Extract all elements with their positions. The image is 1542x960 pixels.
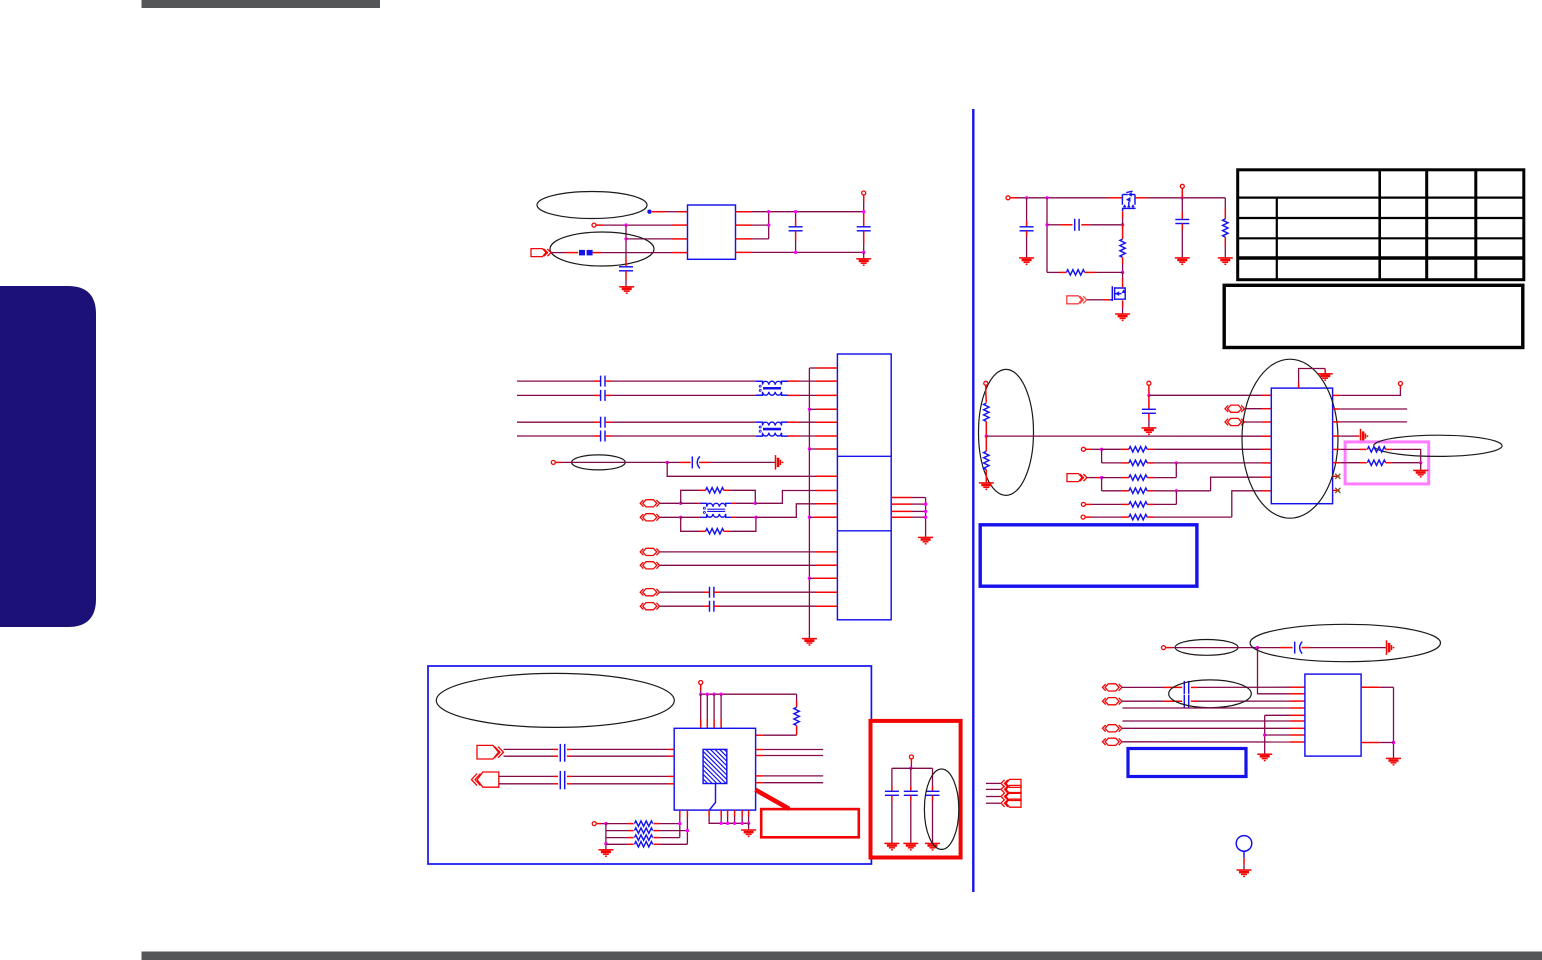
wire flag to Q2 gate: [1087, 299, 1103, 301]
wire vertical node A: [625, 225, 627, 258]
wire gnd branch top: [1265, 714, 1290, 716]
wire strap row2: [1102, 462, 1121, 464]
wire gnd pin drop x=721.2: [720, 810, 722, 816]
wire C11 to U4: [567, 783, 572, 785]
wire to ground G12: [1420, 463, 1422, 470]
wire R6 to ground: [1224, 237, 1226, 246]
wire row2 right: [1147, 462, 1154, 464]
resistor R6: [1223, 219, 1228, 237]
junction S3: [1100, 476, 1103, 479]
terminal T5: [1180, 184, 1184, 188]
wire top branch right: [724, 489, 730, 491]
highlight ellipse E2: [572, 455, 626, 470]
wire pair1a mid: [605, 380, 612, 382]
terminal T14: [909, 755, 913, 759]
resistor R5: [1066, 270, 1084, 275]
wire strap row R20 left: [606, 837, 627, 839]
common-mode choke L1: [756, 381, 788, 395]
wire Y1 to C15: [1258, 647, 1281, 649]
ground C12g: [884, 843, 899, 849]
wire gnd pin drop x=742.2: [741, 810, 743, 816]
wire R19 right: [654, 830, 661, 832]
capacitor C2: [789, 227, 803, 231]
wire T9 to row5: [1086, 503, 1092, 505]
ground G6: [1115, 314, 1130, 320]
wire pair2a mid: [605, 421, 612, 423]
wire H2 to junction: [660, 516, 681, 518]
wire T2 down: [863, 195, 865, 202]
wire row4 to U5: [1123, 720, 1291, 722]
wire T10 to row6: [1085, 516, 1092, 518]
junction V2: [706, 693, 709, 696]
wire pair2b to U2: [788, 435, 799, 437]
wire to left flag y=803.2: [986, 802, 1001, 804]
wire hex to U2: [660, 564, 816, 566]
capacitor C1 leads: [625, 258, 627, 267]
wire R5 to node: [1085, 271, 1095, 273]
junction P2: [1045, 196, 1048, 199]
hex connector row y=592.2: [640, 589, 659, 596]
junction W1: [604, 822, 607, 825]
wire U1 out3: [736, 238, 753, 240]
capacitor C3 bottom lead: [863, 231, 865, 244]
capacitor C7: [1142, 409, 1156, 413]
ground G5: [1019, 258, 1034, 264]
wire TX pair1b left: [517, 394, 594, 396]
highlight ellipse E7: [924, 769, 958, 849]
wire T5 down: [1181, 189, 1183, 198]
small highlight ellipse E5: [1374, 435, 1502, 456]
wire TX pair2a left: [517, 421, 594, 423]
wire to left flag y=783.4: [986, 782, 1001, 784]
resistor R12: [1129, 488, 1147, 493]
IC U2 divider 1: [837, 455, 891, 457]
wire gnd branch vertical: [1264, 715, 1266, 754]
ground termination GT1: [776, 455, 784, 470]
wire U3 out5: [1333, 448, 1341, 450]
wire hex to cap: [660, 591, 703, 593]
wire T15 net: [1166, 647, 1172, 649]
wire U3 out4 termination: [1333, 435, 1341, 437]
wire row4-row5 tie: [1175, 491, 1177, 505]
wire TX pair2b left: [517, 435, 594, 437]
wire T14 down: [910, 759, 912, 763]
wire pair1b to U2: [788, 394, 799, 396]
wire bus drop x=714.1: [713, 694, 715, 719]
wire C13 bottom lead: [910, 795, 912, 801]
junction C3a: [862, 210, 865, 213]
wire U4 bottom gnd pins: [708, 810, 710, 816]
junction W4: [686, 829, 689, 832]
wire C12 top lead: [891, 768, 893, 786]
bus pin row 3: [809, 448, 816, 450]
terminal T8: [1081, 447, 1085, 451]
ground G7: [1175, 258, 1190, 264]
resistor R10: [1129, 460, 1147, 465]
wire main rail: [1010, 197, 1017, 199]
wire to C4: [667, 461, 680, 463]
gate flag F3: [1067, 474, 1087, 482]
bus junction r5: [808, 577, 811, 580]
wire into U2 row6: [800, 475, 816, 477]
wire S3 down: [1101, 478, 1103, 491]
wire U4 pinA drop: [679, 810, 681, 817]
callout leader: [755, 790, 789, 809]
wire R18 right: [654, 823, 661, 825]
wire H3 to U3: [1245, 408, 1262, 410]
wire C6 to ground: [1181, 224, 1183, 231]
capacitor C9: [560, 751, 564, 762]
junction gnd pin: [747, 822, 750, 825]
wire pair1b mid: [605, 394, 612, 396]
resistor R11: [1129, 475, 1147, 480]
wire gnd pin drop x=734.6: [734, 810, 736, 816]
wire Y1 drop to U5: [1258, 648, 1291, 694]
wire R17 to U4 pin: [763, 734, 797, 736]
wire bottom branch: [681, 517, 700, 531]
wire cap bus: [892, 767, 933, 769]
wire R21 right: [654, 843, 661, 845]
resistor R15: [1367, 447, 1385, 452]
junction E3c: [754, 502, 757, 505]
terminal T4: [1006, 196, 1010, 200]
ground G2: [856, 259, 871, 265]
junction B2: [767, 223, 770, 226]
wire branch to R5: [1047, 271, 1060, 273]
capacitor Cs1: [601, 376, 605, 387]
wire circle to ground: [1243, 851, 1245, 858]
note box under table: [1224, 285, 1523, 347]
terminal T1: [592, 223, 596, 227]
wire gnd pin drop x=727.6: [727, 810, 729, 816]
wire bus to R17: [796, 694, 798, 700]
junction S2: [1175, 461, 1178, 464]
wire U4 pinB drop: [686, 810, 688, 817]
wire U1 pin1: [652, 211, 665, 213]
highlight ellipse E6: [436, 673, 674, 727]
wire H6 to C17: [1122, 700, 1163, 702]
ground G15: [1257, 754, 1272, 760]
wire row2-row3 tie: [1175, 463, 1177, 478]
wire U3 out6: [1333, 462, 1341, 464]
wire R4 down: [1122, 257, 1124, 264]
capacitor C7 lead: [1148, 395, 1150, 409]
highlight ellipse E1: [537, 192, 647, 219]
wire U5 right top: [1361, 686, 1379, 688]
net flag left y=803.2: [1001, 799, 1021, 807]
wire C15 to termination: [1302, 647, 1311, 649]
wire bus drop x=707.3: [706, 694, 708, 719]
wire gnd branch mid: [1265, 734, 1290, 736]
gate flag F2: [1067, 296, 1087, 304]
common-mode choke L3: [700, 503, 732, 517]
wire flag to bead: [551, 252, 566, 254]
junction C2b: [794, 251, 797, 254]
callout box red: [761, 809, 859, 837]
U3 nc pin2: [1333, 489, 1340, 491]
ground G3: [802, 639, 817, 645]
junction P6: [1121, 271, 1124, 274]
resistor R8: [984, 451, 989, 469]
antenna circle: [1236, 836, 1252, 852]
wire row3 right: [1147, 477, 1154, 479]
wire right vertical: [925, 498, 927, 537]
junction P1: [1025, 196, 1028, 199]
node dot (blue) pin1 net: [647, 210, 651, 214]
terminal T2: [862, 191, 866, 195]
wire Q1 drain out: [1135, 197, 1148, 199]
bus pin row 1: [809, 367, 816, 369]
wire strap row R21 left: [606, 843, 627, 845]
wire top bus: [701, 693, 797, 695]
wire strap row R19 left: [606, 830, 627, 832]
wire choke feed top: [681, 502, 698, 504]
net flag F1: [531, 249, 551, 257]
hex connector H8: [1103, 738, 1122, 745]
wire C7 to ground: [1148, 413, 1150, 420]
junction gnd pin: [733, 822, 736, 825]
junction V1: [699, 693, 702, 696]
ground G10: [1141, 428, 1156, 434]
wire C17 to U5: [1191, 700, 1197, 702]
terminal T11: [1398, 382, 1402, 386]
wire row6 right: [1147, 516, 1154, 518]
junction Y3: [1392, 741, 1395, 744]
wire U3 out3: [1333, 421, 1341, 423]
resistor R13: [1129, 502, 1147, 507]
ground C14g: [925, 843, 940, 849]
bus junction r4: [808, 516, 811, 519]
wire C5 to Q1 gate node: [1081, 224, 1090, 226]
capacitor C17: [1184, 695, 1188, 708]
capacitor Cs4: [601, 431, 605, 442]
wire U4 right pair2a: [756, 775, 763, 777]
terminal T10: [1081, 515, 1085, 519]
wire T7 down: [1148, 385, 1150, 395]
blue note box mid: [980, 525, 1197, 586]
wire Q1 gate down: [1122, 211, 1124, 218]
wire strap row4: [1102, 490, 1121, 492]
hex connector H2: [640, 514, 659, 521]
junction D1: [666, 461, 669, 464]
wire C13 top lead: [910, 768, 912, 786]
revision table: [1238, 170, 1524, 280]
ground G13: [598, 850, 613, 856]
wire to left flag y=796.5: [986, 796, 1001, 798]
U3 nc pin1: [1333, 475, 1340, 477]
wire U3 out2: [1333, 408, 1341, 410]
bus wire vertical: [808, 368, 810, 635]
hex connector H5: [1103, 684, 1122, 691]
wire left branch: [1046, 198, 1048, 273]
wire Q2 source to ground: [1122, 300, 1124, 307]
junction Q2j: [1147, 394, 1150, 397]
wire U1 pin3: [626, 238, 672, 240]
wire to ground G14: [748, 823, 750, 829]
wire choke out bottom: [731, 516, 736, 518]
junction P3: [1181, 196, 1184, 199]
capacitor series y=606.2: [710, 601, 714, 612]
highlight ellipse E8: [1175, 640, 1238, 656]
wire rail into Q1: [1108, 197, 1122, 199]
junction P4: [1045, 223, 1048, 226]
junction P5: [1121, 223, 1124, 226]
wire to ground G2: [863, 252, 865, 258]
wire D1 branch down: [667, 462, 800, 476]
wire C1 to ground: [625, 271, 627, 280]
wire C16 to U5: [1191, 686, 1197, 688]
bus pin row 4: [809, 516, 813, 518]
capacitor C6: [1175, 220, 1189, 224]
resistor R2c: [706, 529, 724, 534]
hex connector row y=551.9: [640, 548, 659, 555]
ground G11: [1318, 374, 1333, 380]
wire left strap vertical: [605, 824, 607, 850]
IC U4: [674, 728, 755, 810]
junction W2: [604, 842, 607, 845]
wire net45 up to U3: [1211, 477, 1262, 491]
wire bus drop x=721.1: [720, 694, 722, 719]
resistor R9: [1129, 447, 1147, 452]
IC U2 divider 2: [837, 530, 891, 532]
wire pair2b mid: [605, 435, 612, 437]
capacitor C6 lead: [1181, 198, 1183, 212]
resistor R7: [984, 403, 989, 421]
junction S4: [1175, 489, 1178, 492]
wire U1 out1: [736, 211, 753, 213]
junction RP2: [924, 510, 927, 513]
junction gnd pin: [741, 822, 744, 825]
junction E2c: [679, 516, 682, 519]
wire to left flag y=789.4: [986, 788, 1001, 790]
capacitor C1: [619, 267, 633, 271]
hex connector H7: [1103, 725, 1122, 732]
wire to R4: [1122, 225, 1124, 239]
ground G4: [918, 537, 933, 543]
bulk cap box red: [871, 721, 961, 858]
wire R16 right: [1386, 462, 1392, 464]
hex connector row y=606.2: [640, 603, 659, 610]
terminal T9: [1081, 502, 1085, 506]
capacitor Cs3: [601, 417, 605, 428]
wire C8 to U4: [567, 748, 572, 750]
IC U1: [688, 205, 736, 259]
wire F4a to cap: [504, 748, 554, 750]
wire C12 bottom lead: [891, 795, 893, 801]
ground C13g: [903, 843, 918, 849]
junction RP1: [924, 502, 927, 505]
capacitor C13: [904, 791, 918, 795]
wire hex to cap: [660, 605, 703, 607]
wire vcc to U3: [1149, 394, 1262, 396]
container box blue: [428, 666, 871, 864]
capacitor C16: [1184, 681, 1188, 694]
resistor R17: [794, 707, 799, 725]
wire choke feed bottom: [681, 516, 698, 518]
no-connect X1: [1335, 474, 1340, 479]
terminal T12: [699, 681, 703, 685]
capacitor C12: [885, 791, 899, 795]
wire F5b to cap: [499, 783, 553, 785]
hex connector H4: [1225, 418, 1244, 425]
junction RP3: [924, 516, 927, 519]
wire U1 out4: [736, 251, 753, 253]
wire T6 to R7: [985, 386, 987, 393]
bus pin row 2: [809, 408, 816, 410]
wire TX pair1a left: [517, 380, 594, 382]
terminal T15: [1162, 646, 1166, 650]
junction W3: [678, 822, 681, 825]
wire R8 to ground: [985, 470, 987, 483]
hex connector H1: [640, 500, 659, 507]
page footer bar: [142, 952, 1542, 960]
wire bus drop x=700.7: [700, 694, 702, 719]
wire F3 to junction: [1087, 477, 1095, 479]
wire F5a to cap: [499, 775, 553, 777]
hex connector H6: [1103, 698, 1122, 705]
junction Q1j: [985, 434, 988, 437]
wire H7 to U5: [1122, 727, 1290, 729]
ground G1: [619, 287, 634, 293]
wire out joining vertical: [768, 212, 770, 239]
U2 right pins wires: [891, 497, 912, 499]
capacitor C10: [560, 771, 564, 782]
wire T3 net: [555, 461, 561, 463]
wire row1 to U3: [1147, 448, 1154, 450]
wire H1 to junction: [660, 502, 681, 504]
highlight ellipse E10: [1169, 680, 1252, 708]
terminal T6: [984, 381, 988, 385]
wire H8 to U5: [1122, 741, 1290, 743]
center divider line: [972, 109, 974, 892]
wire U4 right pair1b: [756, 755, 763, 757]
wire strap row R18 left: [606, 823, 627, 825]
capacitor C8: [560, 744, 564, 755]
capacitor Cin: [1020, 227, 1034, 231]
hex connector H3: [1225, 405, 1244, 412]
wire bottom branch right: [724, 530, 730, 532]
junction Y2: [1263, 733, 1266, 736]
page header bar: [142, 0, 381, 8]
bus ground wire: [808, 635, 810, 638]
wire U3 top pin to ground: [1298, 383, 1300, 389]
wire H4 to U3: [1245, 421, 1262, 423]
wire branch to C5: [1047, 224, 1060, 226]
ground G12: [1413, 470, 1428, 476]
ground termination GT2: [1361, 429, 1369, 444]
junction gnd pin: [726, 822, 729, 825]
wire R17 down: [796, 726, 798, 736]
resistor R16: [1367, 460, 1385, 465]
resistor R20: [635, 835, 653, 840]
junction C2a: [794, 210, 797, 213]
capacitor C2 bottom lead: [795, 231, 797, 241]
capacitor C3 top lead: [863, 212, 865, 227]
resistor R19: [635, 828, 653, 833]
blue note box bottom: [1128, 749, 1246, 777]
wire R15 right: [1386, 448, 1392, 450]
ground G14: [741, 830, 756, 836]
ground G16: [1386, 758, 1401, 764]
wire U1 pin4: [593, 252, 601, 254]
capacitor C2 top lead: [795, 212, 797, 219]
wire H5 to C16: [1122, 686, 1163, 688]
junction Y1: [1256, 646, 1259, 649]
wire Q2 drain: [1122, 272, 1124, 278]
highlight ellipse E9: [1250, 624, 1440, 661]
terminal T7 vcc: [1147, 381, 1151, 385]
ferrite bead FB1: [579, 250, 593, 256]
